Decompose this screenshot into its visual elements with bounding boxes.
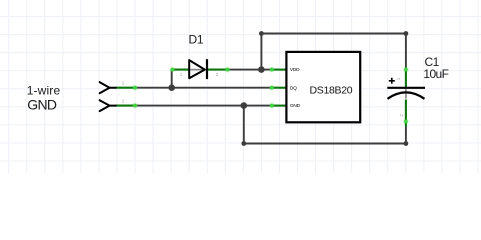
svg-text:1: 1	[396, 77, 401, 80]
svg-text:DS18B20: DS18B20	[309, 84, 352, 96]
svg-text:2: 2	[216, 72, 219, 77]
svg-text:1: 1	[122, 81, 125, 86]
svg-text:D1: D1	[189, 32, 204, 46]
svg-text:1: 1	[180, 72, 183, 77]
svg-text:GND: GND	[290, 103, 301, 109]
svg-text:2: 2	[399, 114, 404, 117]
svg-text:GND: GND	[27, 96, 57, 112]
svg-text:1-wire: 1-wire	[27, 84, 61, 98]
svg-text:1: 1	[122, 98, 125, 103]
svg-text:VDD: VDD	[290, 67, 300, 73]
svg-text:DQ: DQ	[290, 85, 297, 91]
svg-text:10uF: 10uF	[423, 67, 448, 81]
